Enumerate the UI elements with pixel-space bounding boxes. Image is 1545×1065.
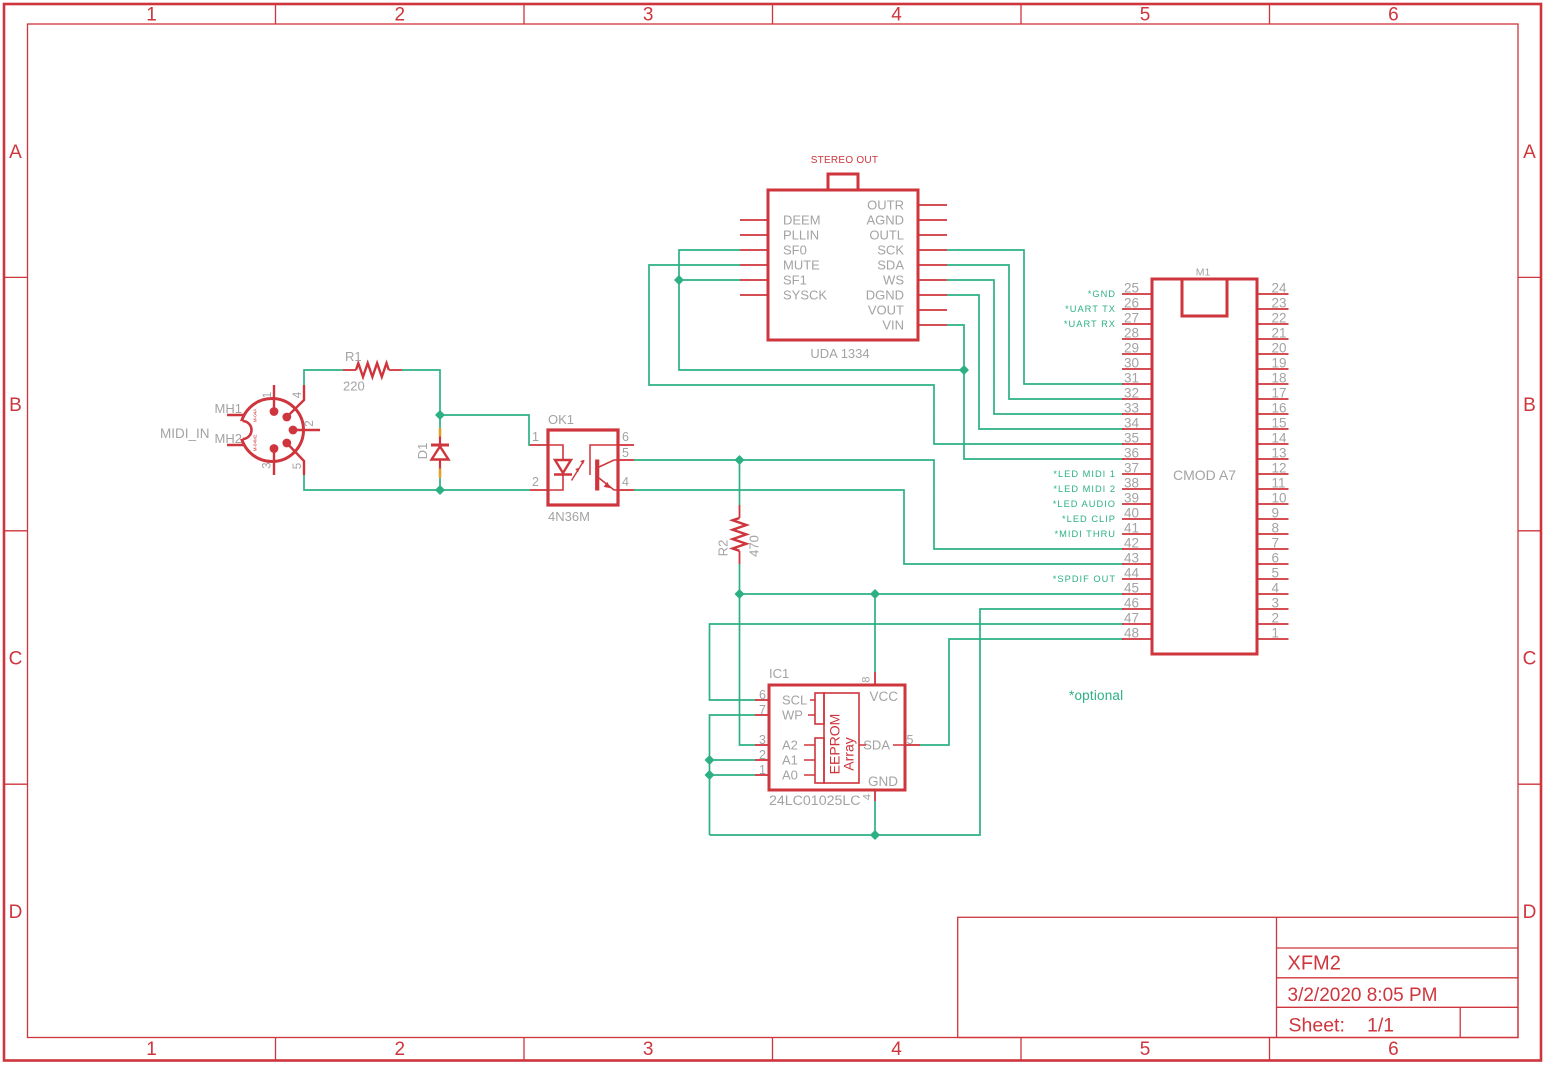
svg-text:2: 2 (395, 5, 406, 26)
svg-text:MH2: MH2 (215, 431, 242, 446)
svg-text:10: 10 (1272, 491, 1287, 506)
svg-text:6: 6 (622, 430, 629, 444)
svg-text:*MIDI THRU: *MIDI THRU (1055, 529, 1116, 539)
svg-text:33: 33 (1124, 401, 1139, 416)
svg-text:GND: GND (868, 774, 898, 789)
svg-text:WS: WS (883, 273, 904, 288)
svg-text:M1: M1 (1196, 267, 1211, 279)
svg-text:PLLIN: PLLIN (783, 228, 819, 243)
svg-text:12: 12 (1272, 461, 1287, 476)
svg-text:37: 37 (1124, 461, 1139, 476)
svg-text:2: 2 (304, 420, 316, 426)
svg-text:7: 7 (759, 703, 766, 717)
svg-text:3: 3 (759, 733, 766, 747)
svg-text:31: 31 (1124, 371, 1139, 386)
svg-text:5: 5 (1140, 5, 1151, 26)
svg-text:3: 3 (262, 462, 274, 468)
svg-text:5: 5 (292, 463, 304, 469)
svg-text:R2: R2 (716, 540, 731, 557)
svg-text:47: 47 (1124, 611, 1139, 626)
svg-text:30: 30 (1124, 356, 1139, 371)
svg-text:M-04M2: M-04M2 (253, 434, 258, 451)
svg-text:6: 6 (1388, 5, 1399, 26)
svg-text:35: 35 (1124, 431, 1139, 446)
svg-text:3: 3 (643, 1039, 654, 1060)
svg-text:4: 4 (891, 1039, 902, 1060)
svg-text:48: 48 (1124, 626, 1139, 641)
svg-text:1: 1 (532, 430, 539, 444)
svg-text:SCL: SCL (782, 693, 807, 708)
svg-text:4: 4 (622, 475, 629, 489)
svg-text:29: 29 (1124, 341, 1139, 356)
svg-text:2: 2 (759, 748, 766, 762)
svg-text:*LED MIDI 2: *LED MIDI 2 (1053, 484, 1116, 494)
svg-text:16: 16 (1272, 401, 1287, 416)
svg-text:25: 25 (1124, 281, 1139, 296)
svg-text:OUTL: OUTL (869, 228, 904, 243)
svg-text:C: C (9, 649, 23, 670)
svg-text:4: 4 (292, 391, 304, 398)
svg-text:1: 1 (262, 392, 274, 398)
svg-text:46: 46 (1124, 596, 1139, 611)
svg-text:M-04A: M-04A (253, 408, 258, 422)
svg-text:UDA 1334: UDA 1334 (810, 346, 869, 361)
svg-text:6: 6 (1272, 551, 1280, 566)
svg-text:1: 1 (1272, 626, 1280, 641)
svg-text:SF0: SF0 (783, 243, 807, 258)
svg-text:A: A (1523, 142, 1536, 163)
svg-text:*UART RX: *UART RX (1064, 319, 1116, 329)
svg-text:6: 6 (1388, 1039, 1399, 1060)
svg-text:VOUT: VOUT (868, 303, 904, 318)
svg-text:*LED AUDIO: *LED AUDIO (1053, 499, 1116, 509)
svg-text:4: 4 (1272, 581, 1280, 596)
svg-text:CMOD A7: CMOD A7 (1173, 467, 1236, 483)
svg-text:24: 24 (1272, 281, 1288, 296)
svg-text:SCK: SCK (877, 243, 904, 258)
svg-text:A: A (9, 142, 22, 163)
svg-text:2: 2 (532, 475, 539, 489)
svg-text:WP: WP (782, 708, 803, 723)
svg-text:8: 8 (861, 676, 873, 682)
svg-text:SF1: SF1 (783, 273, 807, 288)
svg-text:8: 8 (1272, 521, 1280, 536)
svg-text:DEEM: DEEM (783, 213, 821, 228)
svg-text:MIDI_IN: MIDI_IN (160, 426, 210, 441)
svg-text:43: 43 (1124, 551, 1139, 566)
svg-text:1/1: 1/1 (1367, 1015, 1394, 1037)
svg-text:4: 4 (862, 794, 874, 800)
svg-text:*LED MIDI 1: *LED MIDI 1 (1053, 469, 1116, 479)
svg-text:28: 28 (1124, 326, 1139, 341)
svg-text:42: 42 (1124, 536, 1139, 551)
svg-text:Sheet:: Sheet: (1289, 1015, 1345, 1037)
svg-text:B: B (9, 395, 22, 416)
svg-text:39: 39 (1124, 491, 1139, 506)
svg-text:3: 3 (643, 5, 654, 26)
svg-text:470: 470 (747, 535, 762, 557)
svg-text:41: 41 (1124, 521, 1139, 536)
svg-text:26: 26 (1124, 296, 1139, 311)
svg-text:4: 4 (891, 5, 902, 26)
svg-text:15: 15 (1272, 416, 1287, 431)
svg-text:27: 27 (1124, 311, 1139, 326)
svg-text:IC1: IC1 (769, 666, 789, 681)
svg-text:3/2/2020 8:05 PM: 3/2/2020 8:05 PM (1288, 985, 1438, 1006)
svg-text:SDA: SDA (863, 738, 890, 753)
svg-text:24LC01025LC: 24LC01025LC (769, 793, 861, 809)
svg-text:B: B (1523, 395, 1536, 416)
svg-text:3: 3 (1272, 596, 1280, 611)
svg-text:36: 36 (1124, 446, 1139, 461)
svg-text:STEREO OUT: STEREO OUT (811, 155, 879, 166)
svg-text:SDA: SDA (877, 258, 904, 273)
svg-text:*UART TX: *UART TX (1065, 304, 1116, 314)
svg-text:45: 45 (1124, 581, 1139, 596)
svg-text:1: 1 (146, 5, 157, 26)
svg-text:A2: A2 (782, 738, 798, 753)
svg-text:VCC: VCC (869, 689, 898, 704)
svg-text:MUTE: MUTE (783, 258, 820, 273)
svg-text:5: 5 (907, 733, 914, 747)
svg-text:20: 20 (1272, 341, 1287, 356)
svg-text:D: D (1523, 902, 1537, 923)
svg-text:*optional: *optional (1069, 688, 1123, 703)
svg-text:22: 22 (1272, 311, 1287, 326)
svg-text:D: D (9, 902, 23, 923)
svg-text:34: 34 (1124, 416, 1140, 431)
svg-text:2: 2 (395, 1039, 406, 1060)
svg-text:6: 6 (759, 688, 766, 702)
svg-text:OK1: OK1 (548, 412, 574, 427)
svg-text:D1: D1 (415, 443, 430, 460)
svg-text:21: 21 (1272, 326, 1287, 341)
svg-text:19: 19 (1272, 356, 1287, 371)
svg-text:13: 13 (1272, 446, 1287, 461)
svg-text:5: 5 (1272, 566, 1280, 581)
svg-text:44: 44 (1124, 566, 1140, 581)
svg-text:1: 1 (146, 1039, 157, 1060)
svg-text:5: 5 (1140, 1039, 1151, 1060)
svg-text:R1: R1 (345, 349, 362, 364)
svg-text:OUTR: OUTR (867, 198, 904, 213)
svg-text:MH1: MH1 (215, 401, 242, 416)
svg-text:VIN: VIN (882, 318, 904, 333)
svg-text:38: 38 (1124, 476, 1139, 491)
svg-text:2: 2 (1272, 611, 1280, 626)
svg-text:XFM2: XFM2 (1288, 953, 1341, 975)
svg-text:7: 7 (1272, 536, 1280, 551)
svg-text:AGND: AGND (866, 213, 904, 228)
svg-text:220: 220 (343, 379, 365, 394)
svg-text:Array: Array (841, 737, 857, 770)
svg-text:DGND: DGND (866, 288, 904, 303)
svg-text:*SPDIF OUT: *SPDIF OUT (1053, 574, 1116, 584)
svg-text:*GND: *GND (1088, 289, 1116, 299)
svg-text:40: 40 (1124, 506, 1139, 521)
svg-text:A0: A0 (782, 768, 798, 783)
svg-text:5: 5 (622, 446, 629, 460)
svg-text:32: 32 (1124, 386, 1139, 401)
svg-text:9: 9 (1272, 506, 1280, 521)
svg-text:A1: A1 (782, 753, 798, 768)
svg-text:SYSCK: SYSCK (783, 288, 827, 303)
svg-text:14: 14 (1272, 431, 1288, 446)
svg-text:*LED CLIP: *LED CLIP (1062, 514, 1116, 524)
svg-text:1: 1 (759, 763, 766, 777)
svg-text:4N36M: 4N36M (548, 509, 590, 524)
svg-text:18: 18 (1272, 371, 1287, 386)
svg-text:C: C (1523, 649, 1537, 670)
svg-text:23: 23 (1272, 296, 1287, 311)
svg-text:17: 17 (1272, 386, 1287, 401)
svg-text:11: 11 (1272, 476, 1286, 491)
